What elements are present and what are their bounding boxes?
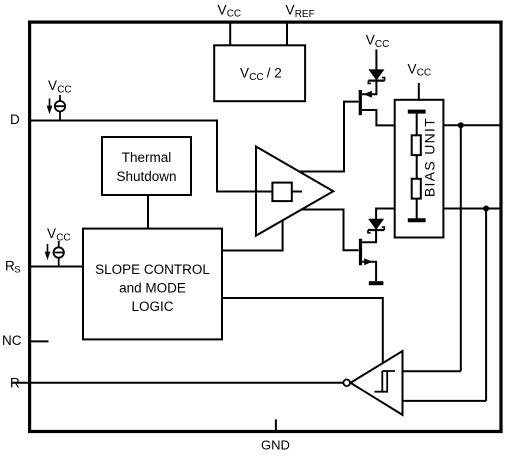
svg-text:S: S (14, 265, 20, 276)
ground (369, 281, 384, 285)
svg-text:SLOPE CONTROL: SLOPE CONTROL (95, 262, 210, 277)
svg-text:V: V (286, 2, 295, 17)
current source I1 on D (55, 95, 65, 121)
block VCC/2 (214, 45, 305, 101)
wire D1 to Q1 source (362, 81, 376, 95)
resistor R2 (412, 179, 421, 199)
svg-text:V: V (48, 78, 57, 93)
diode D2 (Schottky) (368, 219, 384, 233)
transistor Q1 (360, 90, 372, 115)
arrow I2 (45, 244, 51, 260)
svg-text:/ 2: / 2 (263, 66, 282, 81)
wire NC stub (31, 340, 49, 342)
svg-text:Shutdown: Shutdown (116, 169, 176, 184)
svg-text:V: V (366, 33, 375, 48)
label VCC (over bias unit) (408, 62, 432, 79)
wire Q2 source to ground (362, 262, 376, 281)
block Thermal Shutdown (102, 137, 191, 195)
wire Q1 drain to bias unit (362, 110, 395, 125)
wire receiver input 2 (403, 400, 487, 402)
bias top rail (408, 110, 426, 114)
wire VCC to D1 (375, 49, 377, 70)
op-amp U2 receiver (351, 351, 403, 415)
svg-text:GND: GND (261, 438, 290, 453)
svg-text:V: V (408, 62, 417, 77)
wire net1 bias to bus (443, 124, 501, 126)
hysteresis symbol in U2 (375, 371, 396, 392)
wire VCC to VCC/2 box (229, 24, 231, 46)
wire net1 to receiver input (460, 125, 462, 371)
label VCC (I1) (48, 78, 72, 95)
wire D input (31, 121, 272, 192)
svg-text:LOGIC: LOGIC (131, 299, 173, 314)
pin label RS (5, 258, 21, 275)
pin label VCC (top) (218, 2, 242, 19)
label VCC (over D1) (366, 33, 390, 50)
op-amp U1 driver (256, 147, 333, 236)
svg-text:and MODE: and MODE (119, 281, 186, 296)
slew-rate element inside U1 (272, 183, 302, 202)
transistor Q2 (361, 239, 373, 265)
wire R output (12, 382, 343, 384)
svg-text:V: V (47, 226, 56, 241)
node U2 output bubble (343, 380, 350, 387)
wire bias internal (416, 112, 418, 221)
wire thermal to slope logic (147, 195, 149, 229)
wire net2 bias to bus (443, 208, 501, 210)
svg-text:Thermal: Thermal (122, 150, 172, 165)
wire U1 output to Q2 gate (301, 210, 359, 251)
block bias unit (395, 100, 444, 238)
wire VREF to VCC/2 box (286, 24, 288, 46)
wire RS input (31, 266, 83, 268)
arrow I1 (47, 99, 53, 115)
svg-text:CC: CC (56, 232, 70, 243)
bias bottom rail (408, 218, 426, 222)
node net2 junction (483, 206, 489, 212)
svg-text:CC: CC (375, 39, 389, 50)
label VCC / 2 (240, 66, 282, 83)
svg-text:CC: CC (417, 68, 431, 79)
label VCC (I2) (47, 226, 71, 243)
diode D1 (Schottky) (368, 70, 384, 84)
wire net2 to receiver input (485, 209, 487, 401)
svg-text:V: V (240, 66, 249, 81)
svg-text:NC: NC (2, 333, 22, 348)
wire receiver enable (222, 298, 383, 364)
wire VCC to bias unit (418, 83, 420, 100)
pin GND stub (275, 419, 277, 430)
svg-text:V: V (218, 2, 227, 17)
svg-text:D: D (10, 112, 20, 127)
wire receiver input 1 (403, 370, 461, 372)
current source I2 on RS (54, 241, 64, 267)
svg-text:REF: REF (295, 9, 315, 20)
block SLOPE CONTROL and MODE LOGIC (83, 229, 222, 340)
pin label VREF (top) (286, 2, 315, 20)
resistor R1 (412, 135, 421, 155)
node net1 junction (458, 122, 464, 128)
wire bias to D2 (376, 209, 395, 220)
label Thermal Shutdown (116, 150, 176, 184)
svg-text:BIAS UNIT: BIAS UNIT (422, 117, 438, 197)
label SLOPE CONTROL and MODE LOGIC (95, 262, 210, 314)
svg-text:CC: CC (249, 72, 263, 83)
svg-text:CC: CC (57, 84, 71, 95)
svg-text:CC: CC (227, 9, 241, 20)
wire U1 output to Q1 gate (299, 102, 358, 172)
wire D2 to Q2 drain (362, 230, 376, 242)
wire driver enable (222, 220, 283, 250)
